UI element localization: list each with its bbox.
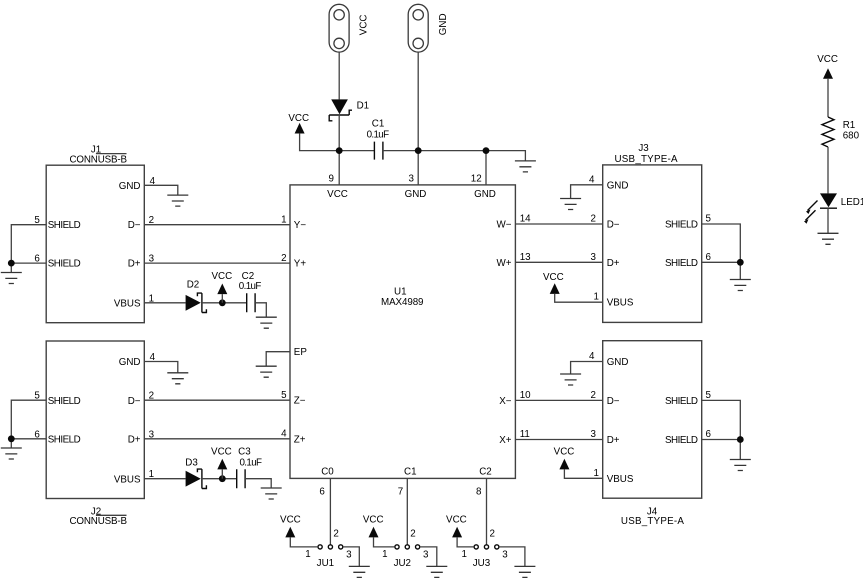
power VCC (JU1) <box>280 514 301 537</box>
ground (J1 shield) <box>1 273 22 284</box>
node GND testpoint junction <box>415 147 422 154</box>
wire R1 to LED1 <box>827 147 829 193</box>
ground (J3 GND) <box>560 199 581 210</box>
node J4 shield junction <box>737 436 744 443</box>
IC U1 MAX4989 <box>290 185 515 479</box>
svg-text:1: 1 <box>594 292 599 303</box>
svg-text:1: 1 <box>281 214 286 225</box>
svg-text:GND: GND <box>119 357 141 368</box>
wire J2 D+ to U1 Z+ <box>144 438 290 440</box>
svg-text:C3: C3 <box>238 447 251 458</box>
svg-text:C0: C0 <box>321 466 334 477</box>
svg-text:2: 2 <box>591 214 596 225</box>
ground (C3) <box>261 488 282 499</box>
svg-text:GND: GND <box>405 189 427 200</box>
svg-text:2: 2 <box>281 253 286 264</box>
ground (J2 GND) <box>167 373 188 384</box>
svg-text:D2: D2 <box>187 280 200 291</box>
svg-text:VCC: VCC <box>211 271 232 282</box>
svg-text:D−: D− <box>607 220 620 231</box>
wire JU2 pin 3 to ground <box>420 547 437 567</box>
wire U1 pin 12 stub <box>485 151 487 185</box>
svg-text:CONNUSB-B: CONNUSB-B <box>70 155 128 166</box>
svg-text:LED1: LED1 <box>841 197 863 208</box>
wire VCC to JU3 pin 1 <box>457 537 474 547</box>
node pin 12 junction <box>483 147 490 154</box>
svg-text:GND: GND <box>607 181 629 192</box>
wire VCC to J4 VBUS <box>564 469 602 478</box>
capacitor C1 <box>367 118 390 159</box>
svg-text:VCC: VCC <box>363 514 384 525</box>
wire EP to ground <box>266 352 290 367</box>
svg-text:4: 4 <box>281 429 287 440</box>
resistor R1 <box>822 117 860 147</box>
svg-text:14: 14 <box>520 214 531 225</box>
ground (J1 GND) <box>167 195 188 206</box>
svg-text:7: 7 <box>398 487 403 498</box>
svg-text:VCC: VCC <box>817 54 838 65</box>
svg-text:W+: W+ <box>497 258 512 269</box>
svg-text:4: 4 <box>589 351 595 362</box>
ground (EP) <box>256 366 277 377</box>
ground (JU3) <box>514 566 535 577</box>
wire J2 shield pin 6 <box>11 439 46 448</box>
wire J1 VBUS to D2 <box>144 302 185 304</box>
connector J4 USB_TYPE-A <box>603 341 702 528</box>
svg-text:W−: W− <box>497 220 512 231</box>
wire C1 to ground bend <box>383 151 526 161</box>
power VCC (JU2) <box>363 514 384 537</box>
svg-text:SHIELD: SHIELD <box>48 435 81 446</box>
wire VCC testpoint to D1 <box>338 52 340 99</box>
wire U1 pin 7 (C1) to JU2 <box>406 478 408 544</box>
wire U1 W- to J3 D- <box>515 223 602 225</box>
power VCC (J3 VBUS) <box>543 272 564 294</box>
svg-text:10: 10 <box>520 390 531 401</box>
svg-text:GND: GND <box>474 189 496 200</box>
diode D3 (schottky) <box>186 469 207 488</box>
ground (J2 shield) <box>1 448 22 459</box>
ground (JU1) <box>349 566 370 577</box>
node J1 shield junction <box>8 260 15 267</box>
ground (LED1) <box>818 233 839 244</box>
svg-text:1: 1 <box>382 549 387 560</box>
svg-text:D−: D− <box>128 220 141 231</box>
svg-text:2: 2 <box>490 529 495 540</box>
wire VCC to JU2 pin 1 <box>374 537 395 547</box>
svg-text:D1: D1 <box>357 101 370 112</box>
svg-text:2: 2 <box>591 390 596 401</box>
power VCC (R1) <box>817 54 838 79</box>
connector J2 CONNUSB-B <box>46 341 144 527</box>
wire JU1 pin 3 to ground <box>343 547 359 567</box>
wire VCC arrow to node <box>300 133 374 150</box>
svg-text:6: 6 <box>319 487 325 498</box>
svg-text:5: 5 <box>706 214 712 225</box>
svg-text:3: 3 <box>502 550 508 561</box>
svg-text:1: 1 <box>461 549 466 560</box>
svg-text:9: 9 <box>329 173 334 184</box>
wire U1 pin 6 (C0) to JU1 <box>329 478 331 544</box>
wire C3 to ground <box>245 479 271 488</box>
svg-text:SHIELD: SHIELD <box>665 435 698 446</box>
node VBUS1 junction <box>219 299 226 306</box>
ground (J3 shield) <box>730 280 751 291</box>
ground (C2) <box>256 317 277 328</box>
svg-text:3: 3 <box>591 252 597 263</box>
svg-text:D3: D3 <box>185 458 198 469</box>
svg-text:VBUS: VBUS <box>114 298 141 309</box>
svg-text:0.1uF: 0.1uF <box>240 458 263 469</box>
svg-text:VCC: VCC <box>446 514 467 525</box>
svg-text:VCC: VCC <box>554 446 575 457</box>
power VCC (top left) <box>288 113 309 133</box>
svg-text:GND: GND <box>119 181 141 192</box>
diode D1 (schottky) <box>329 99 352 120</box>
node VCC/D1 junction <box>336 147 343 154</box>
svg-text:2: 2 <box>410 529 415 540</box>
svg-text:D+: D+ <box>128 259 141 270</box>
capacitor C3 <box>237 447 262 489</box>
svg-text:D−: D− <box>128 396 141 407</box>
svg-text:VBUS: VBUS <box>607 474 634 485</box>
svg-text:Y−: Y− <box>294 220 307 231</box>
svg-text:0.1uF: 0.1uF <box>367 130 390 141</box>
svg-text:X−: X− <box>499 396 512 407</box>
wire GND testpoint to U1 pin 3 <box>417 52 419 185</box>
wire LED1 to ground <box>827 208 829 233</box>
wire J3 shield pin 6 <box>702 262 741 279</box>
node J2 shield junction <box>8 435 15 442</box>
node VBUS2 junction <box>219 475 226 482</box>
ground (top right) <box>515 161 536 172</box>
wire D3 to C3 <box>202 478 237 480</box>
svg-text:VCC: VCC <box>280 514 301 525</box>
power VCC (JU3) <box>446 514 467 537</box>
svg-text:VBUS: VBUS <box>607 298 634 309</box>
svg-text:SHIELD: SHIELD <box>48 259 81 270</box>
wire U1 X+ to J4 D+ <box>515 439 602 441</box>
wire VCC to JU1 pin 1 <box>290 537 318 547</box>
svg-text:SHIELD: SHIELD <box>665 258 698 269</box>
svg-text:C1: C1 <box>372 118 385 129</box>
svg-text:R1: R1 <box>843 120 856 131</box>
wire U1 X- to J4 D- <box>515 399 602 401</box>
capacitor C2 <box>239 271 262 312</box>
testpoint VCC TP1 <box>329 4 349 52</box>
svg-text:VCC: VCC <box>327 189 348 200</box>
svg-text:6: 6 <box>706 252 712 263</box>
svg-text:USB_TYPE-A: USB_TYPE-A <box>621 516 684 527</box>
svg-text:SHIELD: SHIELD <box>48 396 81 407</box>
svg-text:JU3: JU3 <box>473 558 491 569</box>
svg-text:D+: D+ <box>128 435 141 446</box>
svg-text:Y+: Y+ <box>294 259 307 270</box>
jumper JU3 <box>473 545 499 569</box>
wire J2 GND pin to ground <box>144 362 178 373</box>
wire JU3 pin 3 to ground <box>499 547 525 567</box>
svg-text:VCC: VCC <box>543 272 564 283</box>
svg-text:D−: D− <box>607 396 620 407</box>
svg-text:5: 5 <box>281 390 287 401</box>
svg-text:6: 6 <box>706 429 712 440</box>
wire VCC to R1 <box>827 79 829 117</box>
wire J3 GND pin to ground <box>571 185 603 199</box>
svg-text:EP: EP <box>294 347 308 358</box>
svg-text:X+: X+ <box>499 435 512 446</box>
svg-text:3: 3 <box>409 173 415 184</box>
jumper JU2 <box>394 545 420 569</box>
wire U1 W+ to J3 D+ <box>515 261 602 263</box>
svg-text:D+: D+ <box>607 258 620 269</box>
power VCC (J2 VBUS) <box>211 447 232 479</box>
svg-text:3: 3 <box>423 550 429 561</box>
connector J1 CONNUSB-B <box>46 145 144 323</box>
power VCC (J1 VBUS) <box>211 271 232 303</box>
wire J1 shield pin 5 <box>11 225 46 263</box>
svg-text:J3: J3 <box>638 143 649 154</box>
wire J4 shield pin 6 <box>702 440 741 460</box>
diode D2 (schottky) <box>186 293 207 312</box>
wire J2 VBUS to D3 <box>144 478 185 480</box>
connector J3 USB_TYPE-A <box>603 143 702 322</box>
wire C2 to ground <box>255 303 266 317</box>
svg-text:680: 680 <box>843 130 860 141</box>
wire J1 D+ to U1 Y+ <box>144 262 290 264</box>
svg-text:2: 2 <box>333 529 338 540</box>
wire D2 to C2 <box>202 302 247 304</box>
wire J1 shield pin 6 <box>11 263 46 272</box>
wire D1 cathode to U1 pin 9 <box>338 115 340 185</box>
svg-text:C1: C1 <box>404 466 417 477</box>
wire J4 shield pin 5 <box>702 400 741 439</box>
svg-text:SHIELD: SHIELD <box>665 396 698 407</box>
svg-text:1: 1 <box>305 549 310 560</box>
svg-text:JU1: JU1 <box>317 558 334 569</box>
svg-text:VCC: VCC <box>211 447 232 458</box>
wire VCC to J3 VBUS <box>555 294 603 302</box>
svg-text:1: 1 <box>594 468 599 479</box>
node J3 shield junction <box>737 259 744 266</box>
svg-text:CONNUSB-B: CONNUSB-B <box>70 516 128 527</box>
svg-text:8: 8 <box>476 487 482 498</box>
svg-text:C2: C2 <box>479 466 492 477</box>
wire J4 GND pin to ground <box>571 362 603 375</box>
ground (JU2) <box>426 566 447 577</box>
power VCC (J4 VBUS) <box>554 446 575 469</box>
wire J1 D- to U1 Y- <box>144 224 290 226</box>
svg-text:Z−: Z− <box>294 396 306 407</box>
svg-text:11: 11 <box>520 429 530 440</box>
ground (J4 GND) <box>560 374 581 385</box>
svg-text:VCC: VCC <box>288 113 309 124</box>
wire J1 GND pin to ground <box>144 185 178 195</box>
ground (J4 shield) <box>730 460 751 471</box>
svg-text:U1: U1 <box>394 286 407 297</box>
svg-text:SHIELD: SHIELD <box>48 220 81 231</box>
svg-text:USB_TYPE-A: USB_TYPE-A <box>615 154 678 165</box>
svg-text:VBUS: VBUS <box>114 474 141 485</box>
svg-text:JU2: JU2 <box>394 558 411 569</box>
svg-text:13: 13 <box>520 252 531 263</box>
svg-text:4: 4 <box>589 174 595 185</box>
svg-text:3: 3 <box>591 429 597 440</box>
svg-text:0.1uF: 0.1uF <box>239 281 262 292</box>
wire J2 D- to U1 Z- <box>144 399 290 401</box>
svg-text:GND: GND <box>438 13 449 35</box>
wire J2 shield pin 5 <box>11 400 46 439</box>
svg-text:D+: D+ <box>607 435 620 446</box>
jumper JU1 <box>317 545 343 569</box>
wire J3 shield pin 5 <box>702 224 741 262</box>
svg-text:3: 3 <box>346 550 352 561</box>
svg-text:MAX4989: MAX4989 <box>381 297 424 308</box>
testpoint GND TP2 <box>408 4 428 52</box>
svg-text:12: 12 <box>471 174 482 185</box>
LED LED1 <box>804 193 863 223</box>
svg-text:SHIELD: SHIELD <box>665 220 698 231</box>
svg-text:Z+: Z+ <box>294 434 306 445</box>
wire U1 pin 8 (C2) to JU3 <box>486 478 488 544</box>
svg-text:VCC: VCC <box>359 15 370 36</box>
svg-text:5: 5 <box>706 390 712 401</box>
svg-text:GND: GND <box>607 357 629 368</box>
